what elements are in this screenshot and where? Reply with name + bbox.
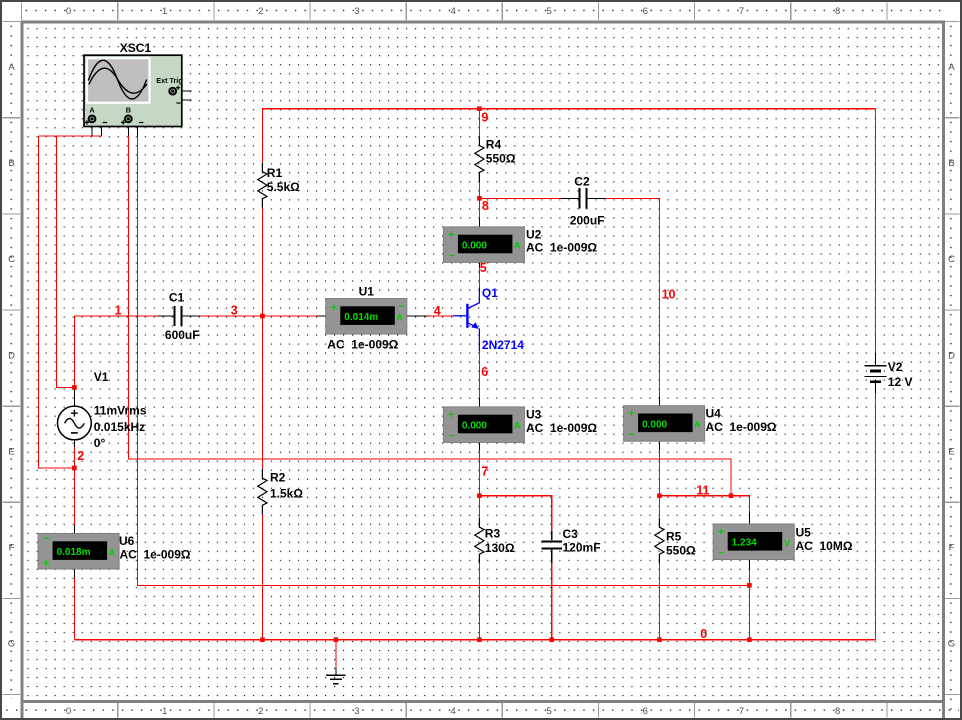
svg-text:6: 6 bbox=[643, 6, 648, 17]
svg-text:6: 6 bbox=[481, 365, 488, 379]
svg-text:3: 3 bbox=[231, 303, 238, 317]
svg-text:12 V: 12 V bbox=[888, 375, 913, 389]
svg-text:R3: R3 bbox=[485, 526, 501, 540]
svg-text:0.000: 0.000 bbox=[642, 419, 667, 430]
svg-text:7: 7 bbox=[739, 6, 744, 17]
svg-text:0.015kHz: 0.015kHz bbox=[94, 420, 145, 434]
svg-text:0.018m: 0.018m bbox=[57, 547, 91, 558]
svg-text:5.5kΩ: 5.5kΩ bbox=[267, 180, 300, 194]
svg-text:0: 0 bbox=[66, 6, 71, 17]
svg-text:0: 0 bbox=[700, 627, 707, 641]
svg-text:U4: U4 bbox=[706, 407, 722, 421]
svg-text:E: E bbox=[8, 447, 14, 458]
svg-text:R5: R5 bbox=[666, 529, 682, 543]
svg-text:550Ω: 550Ω bbox=[486, 152, 516, 166]
svg-text:0: 0 bbox=[66, 706, 71, 717]
svg-text:10: 10 bbox=[662, 288, 676, 302]
svg-text:6: 6 bbox=[643, 706, 648, 717]
svg-text:AC 1e-009Ω: AC 1e-009Ω bbox=[526, 240, 597, 254]
svg-text:B: B bbox=[948, 158, 954, 169]
svg-text:B: B bbox=[8, 158, 14, 169]
svg-text:C2: C2 bbox=[574, 174, 590, 188]
svg-text:A: A bbox=[8, 62, 15, 73]
svg-text:V: V bbox=[784, 538, 790, 548]
svg-text:F: F bbox=[949, 543, 955, 554]
svg-text:XSC1: XSC1 bbox=[120, 41, 152, 55]
svg-text:C3: C3 bbox=[563, 527, 579, 541]
svg-text:7: 7 bbox=[481, 465, 488, 479]
svg-text:Q1: Q1 bbox=[482, 286, 498, 300]
svg-text:A: A bbox=[89, 106, 94, 115]
svg-text:2: 2 bbox=[77, 449, 84, 463]
svg-text:D: D bbox=[8, 350, 15, 361]
svg-text:G: G bbox=[948, 639, 955, 650]
svg-text:4: 4 bbox=[450, 706, 455, 717]
svg-text:4: 4 bbox=[450, 6, 455, 17]
svg-text:0.000: 0.000 bbox=[462, 241, 487, 252]
svg-text:550Ω: 550Ω bbox=[666, 544, 696, 558]
svg-text:U6: U6 bbox=[119, 534, 135, 548]
svg-text:Ext Trig: Ext Trig bbox=[156, 76, 182, 85]
svg-text:U2: U2 bbox=[526, 227, 542, 241]
svg-text:1: 1 bbox=[115, 303, 122, 317]
svg-text:R1: R1 bbox=[267, 166, 283, 180]
svg-text:AC 1e-009Ω: AC 1e-009Ω bbox=[526, 421, 597, 435]
svg-text:AC 10MΩ: AC 10MΩ bbox=[796, 539, 853, 553]
svg-text:A: A bbox=[694, 420, 701, 430]
svg-text:8: 8 bbox=[835, 6, 840, 17]
svg-text:C: C bbox=[8, 254, 15, 265]
svg-text:C1: C1 bbox=[169, 291, 185, 305]
svg-text:V2: V2 bbox=[888, 360, 903, 374]
svg-text:0.014m: 0.014m bbox=[344, 312, 378, 323]
svg-text:V1: V1 bbox=[94, 370, 109, 384]
svg-text:5: 5 bbox=[547, 706, 552, 717]
svg-text:R4: R4 bbox=[486, 137, 502, 151]
svg-text:E: E bbox=[948, 447, 954, 458]
svg-text:D: D bbox=[948, 350, 955, 361]
svg-text:0.000: 0.000 bbox=[462, 421, 487, 432]
svg-text:AC 1e-009Ω: AC 1e-009Ω bbox=[120, 548, 191, 562]
svg-text:A: A bbox=[109, 547, 116, 557]
svg-text:AC 1e-009Ω: AC 1e-009Ω bbox=[706, 420, 777, 434]
svg-text:5: 5 bbox=[547, 6, 552, 17]
svg-text:B: B bbox=[126, 106, 131, 115]
svg-text:G: G bbox=[8, 639, 15, 650]
svg-text:U3: U3 bbox=[526, 408, 542, 422]
svg-text:2: 2 bbox=[258, 706, 263, 717]
svg-text:8: 8 bbox=[835, 706, 840, 717]
svg-text:5: 5 bbox=[480, 261, 487, 275]
svg-text:A: A bbox=[948, 62, 955, 73]
svg-text:7: 7 bbox=[739, 706, 744, 717]
svg-text:200uF: 200uF bbox=[570, 214, 605, 228]
svg-text:120mF: 120mF bbox=[563, 541, 601, 555]
svg-text:0°: 0° bbox=[94, 436, 106, 450]
svg-text:3: 3 bbox=[354, 6, 359, 17]
svg-text:A: A bbox=[514, 421, 521, 431]
svg-text:A: A bbox=[396, 312, 403, 322]
svg-text:1.234: 1.234 bbox=[732, 538, 757, 549]
svg-text:F: F bbox=[9, 543, 15, 554]
svg-text:130Ω: 130Ω bbox=[485, 541, 515, 555]
svg-text:C: C bbox=[948, 254, 955, 265]
svg-text:3: 3 bbox=[354, 706, 359, 717]
svg-text:1: 1 bbox=[162, 6, 167, 17]
svg-text:1.5kΩ: 1.5kΩ bbox=[270, 486, 303, 500]
svg-text:2N2714: 2N2714 bbox=[482, 338, 524, 352]
svg-text:600uF: 600uF bbox=[165, 328, 200, 342]
svg-text:4: 4 bbox=[434, 304, 441, 318]
svg-text:11mVrms: 11mVrms bbox=[94, 404, 147, 418]
svg-text:8: 8 bbox=[482, 199, 489, 213]
svg-text:U1: U1 bbox=[359, 284, 375, 298]
svg-text:R2: R2 bbox=[270, 471, 286, 485]
svg-text:1: 1 bbox=[162, 706, 167, 717]
svg-text:9: 9 bbox=[481, 111, 488, 125]
svg-text:11: 11 bbox=[696, 483, 709, 497]
svg-text:U5: U5 bbox=[796, 526, 812, 540]
svg-text:A: A bbox=[514, 241, 521, 251]
svg-text:2: 2 bbox=[258, 6, 263, 17]
svg-text:AC 1e-009Ω: AC 1e-009Ω bbox=[327, 338, 398, 352]
